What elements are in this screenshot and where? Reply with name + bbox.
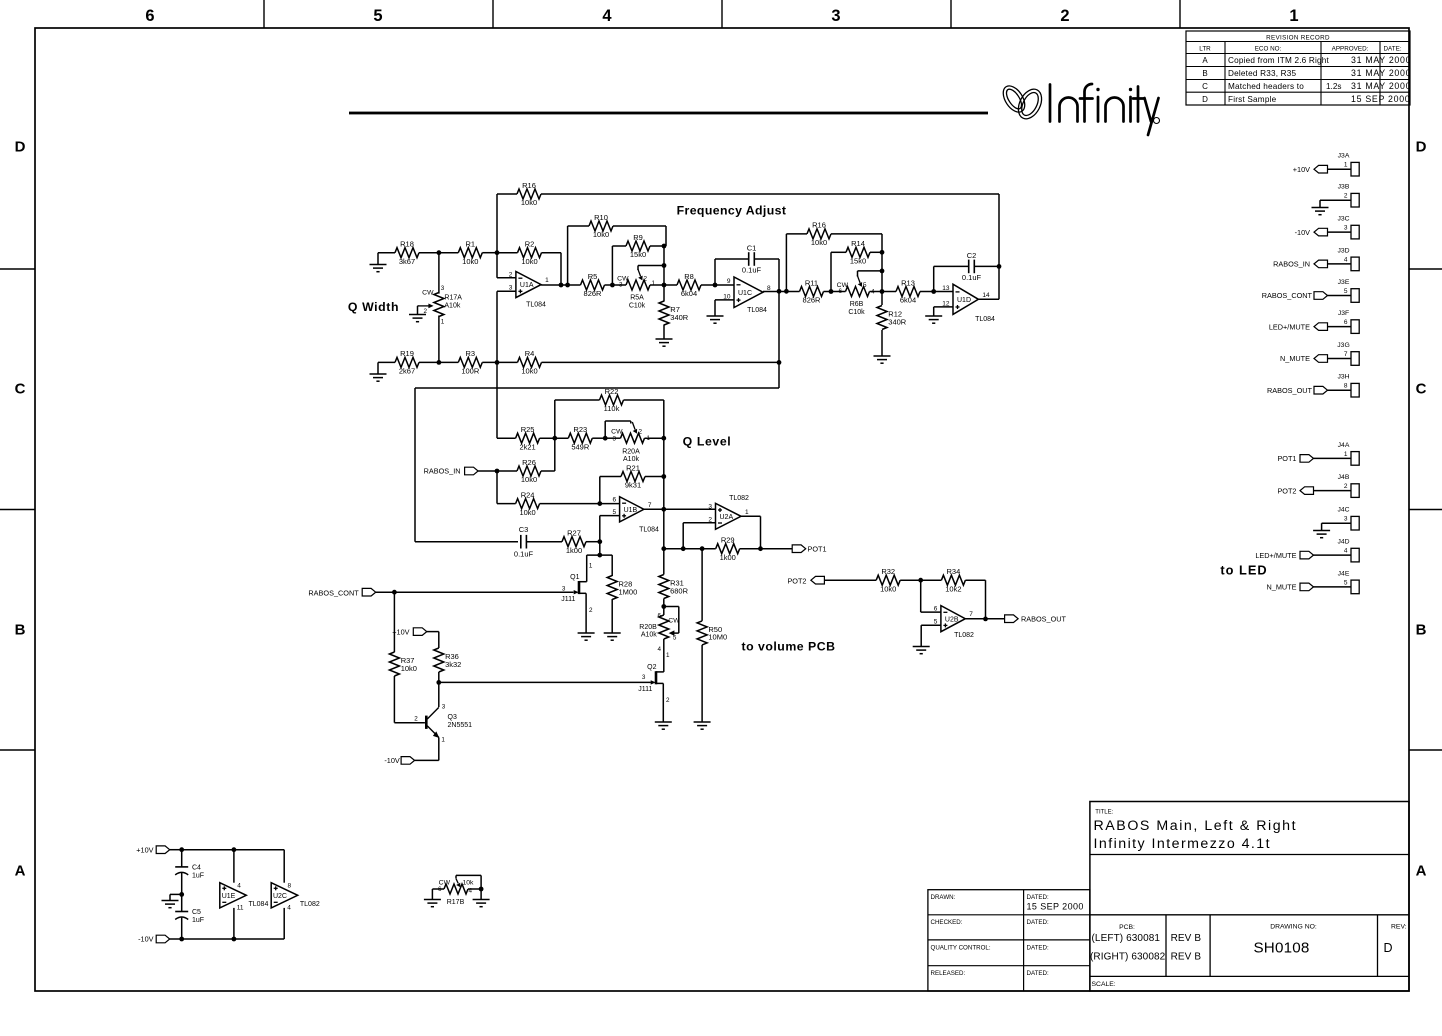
svg-text:4: 4 xyxy=(237,882,241,889)
potentiometer R17A xyxy=(419,253,444,363)
svg-text:J3F: J3F xyxy=(1338,310,1349,317)
svg-text:C: C xyxy=(1416,381,1427,398)
svg-text:3k67: 3k67 xyxy=(399,257,415,266)
svg-text:TL082: TL082 xyxy=(729,495,749,502)
zone number 5 xyxy=(373,7,382,25)
wire U1D output xyxy=(978,298,999,300)
svg-text:11: 11 xyxy=(237,904,244,911)
svg-text:10M0: 10M0 xyxy=(708,633,727,642)
node R14 left on row xyxy=(829,289,834,294)
svg-text:J3G: J3G xyxy=(1337,342,1349,349)
wire R21 row xyxy=(600,477,664,504)
node R9/R10 right junction xyxy=(662,244,667,249)
svg-text:POT2: POT2 xyxy=(1277,486,1296,495)
node R20A right junction xyxy=(661,436,666,441)
svg-text:10k0: 10k0 xyxy=(521,257,537,266)
wire U1A pin3 feed xyxy=(497,291,516,362)
svg-text:1: 1 xyxy=(441,737,445,744)
left zone tick D/C xyxy=(0,268,35,270)
node R31 row junction xyxy=(661,546,666,551)
svg-text:+10V: +10V xyxy=(1293,165,1310,174)
node RABOS_CONT junction xyxy=(392,590,397,595)
svg-text:100R: 100R xyxy=(461,367,480,376)
svg-text:J3E: J3E xyxy=(1338,279,1350,286)
connector POT1 xyxy=(792,544,826,553)
ground psu mid xyxy=(162,894,182,907)
node R7 top on output row xyxy=(662,283,667,288)
svg-text:R34: R34 xyxy=(947,567,961,576)
zone number 2 xyxy=(1060,7,1069,25)
wire psu top rail xyxy=(182,850,285,883)
svg-text:31 MAY 2000: 31 MAY 2000 xyxy=(1351,81,1411,91)
svg-text:6: 6 xyxy=(657,612,661,619)
svg-text:10k2: 10k2 xyxy=(945,584,961,593)
transistor Q1 J111 xyxy=(561,562,593,633)
node C2 tap xyxy=(931,289,936,294)
section title Q Width xyxy=(348,300,399,314)
svg-text:R11: R11 xyxy=(805,278,818,287)
ground under R50 xyxy=(694,722,711,729)
svg-text:R6B: R6B xyxy=(850,301,864,308)
wire U2B output row xyxy=(965,618,1004,620)
wire rail into R25 xyxy=(496,362,498,438)
connector RABOS_OUT xyxy=(1005,614,1067,623)
header J3B xyxy=(1338,184,1360,207)
svg-text:LTR: LTR xyxy=(1199,46,1211,53)
Infinity logo swirl xyxy=(999,82,1046,123)
section note to LED xyxy=(1220,563,1267,578)
svg-text:1: 1 xyxy=(545,277,549,284)
svg-text:C: C xyxy=(15,381,26,398)
svg-text:13: 13 xyxy=(942,285,950,292)
svg-text:J3B: J3B xyxy=(1338,184,1350,191)
header J4B xyxy=(1338,474,1360,497)
header J3A xyxy=(1338,153,1360,176)
svg-text:1: 1 xyxy=(589,562,593,569)
svg-text:4: 4 xyxy=(1344,548,1348,555)
ground at J4C xyxy=(1313,523,1351,538)
svg-text:5: 5 xyxy=(863,282,867,289)
wire R12 column xyxy=(881,234,883,356)
svg-text:LED+/MUTE: LED+/MUTE xyxy=(1255,551,1296,560)
svg-text:2: 2 xyxy=(1344,483,1348,490)
svg-text:POT1: POT1 xyxy=(808,544,827,553)
wire rail from R16 down to R1/R2 node xyxy=(496,194,498,253)
capacitor C2 xyxy=(934,194,999,299)
wire U2B pin5 to ground xyxy=(913,625,941,654)
wire R14 row xyxy=(831,252,882,291)
wire R26 row xyxy=(497,438,555,471)
node U2A output junction xyxy=(758,546,763,551)
resistor R10 xyxy=(589,213,613,239)
svg-text:CW: CW xyxy=(611,429,623,436)
svg-text:6: 6 xyxy=(934,606,938,613)
svg-text:ECO NO:: ECO NO: xyxy=(1255,46,1282,53)
revision record table xyxy=(1186,31,1411,105)
svg-text:R20A: R20A xyxy=(622,448,640,455)
svg-text:U2C: U2C xyxy=(273,893,287,900)
wire R36 junction row to Q2 gate xyxy=(439,672,651,682)
wire R22 row xyxy=(555,400,664,438)
svg-text:DATED:: DATED: xyxy=(1027,945,1050,952)
svg-text:4: 4 xyxy=(1344,256,1348,263)
svg-text:SCALE:: SCALE: xyxy=(1092,981,1116,988)
node C1 tap xyxy=(713,283,718,288)
potentiometer R17B xyxy=(438,875,481,905)
resistor R16 second xyxy=(807,221,831,247)
node C5 bottom xyxy=(179,937,184,942)
svg-text:C10k: C10k xyxy=(629,302,646,309)
svg-text:J4D: J4D xyxy=(1337,539,1349,546)
svg-text:D: D xyxy=(1202,95,1208,104)
svg-text:2: 2 xyxy=(589,607,593,614)
connector -10V psu xyxy=(138,935,182,944)
svg-text:C5: C5 xyxy=(192,909,201,916)
node wiper junction xyxy=(662,263,667,268)
wire R6B wiper to node xyxy=(858,271,883,277)
op-amp U1C xyxy=(723,277,771,314)
svg-text:1.2s: 1.2s xyxy=(1326,82,1341,91)
potentiometer R5A xyxy=(617,269,655,310)
svg-text:3: 3 xyxy=(442,703,446,710)
resistor R9 xyxy=(626,233,650,259)
zone tick 6/5 xyxy=(263,0,265,28)
node R12 top on row xyxy=(880,289,885,294)
svg-text:4: 4 xyxy=(469,887,473,894)
svg-text:A: A xyxy=(1202,56,1208,65)
right zone letter B xyxy=(1416,622,1427,639)
svg-text:R32: R32 xyxy=(881,567,895,576)
svg-text:7: 7 xyxy=(1344,351,1348,358)
resistor R1 xyxy=(458,240,482,266)
svg-text:2: 2 xyxy=(423,308,427,315)
wire U1A output row xyxy=(541,284,734,286)
svg-text:R13: R13 xyxy=(901,278,915,287)
svg-text:1: 1 xyxy=(441,319,445,326)
svg-text:C1: C1 xyxy=(747,244,757,253)
svg-text:B: B xyxy=(15,622,26,639)
ground R17B left xyxy=(424,889,444,907)
svg-text:1uF: 1uF xyxy=(192,873,204,880)
connector RABOS_OUT J3H xyxy=(1267,386,1351,395)
right zone tick B/A xyxy=(1409,749,1442,751)
svg-text:J111: J111 xyxy=(561,596,575,603)
connector RABOS_IN J3D xyxy=(1273,260,1351,269)
logo underline bar xyxy=(349,112,988,115)
potentiometer R20A xyxy=(605,421,650,463)
svg-text:U1E: U1E xyxy=(222,893,236,900)
wire RABOS_CONT row to Q1 gate xyxy=(394,591,573,593)
right zone letter C xyxy=(1416,381,1427,398)
svg-text:U2A: U2A xyxy=(720,514,734,521)
connector LED+/MUTE J3F xyxy=(1269,322,1351,331)
resistor R36 xyxy=(434,648,462,672)
wire R37 to Q3 base xyxy=(394,676,425,723)
svg-text:1: 1 xyxy=(1344,162,1348,169)
svg-text:REV B: REV B xyxy=(1171,933,1202,944)
svg-text:1: 1 xyxy=(1344,451,1348,458)
right zone letter D xyxy=(1416,139,1427,156)
svg-text:680R: 680R xyxy=(670,586,689,595)
svg-text:15k0: 15k0 xyxy=(850,257,866,266)
wire RABOS_CONT down to R37 xyxy=(393,592,395,652)
node R18/R1/R17A junction xyxy=(437,250,442,255)
svg-text:DATED:: DATED: xyxy=(1027,970,1050,977)
ground R17B right xyxy=(473,889,490,907)
zone number 1 xyxy=(1289,7,1298,25)
svg-text:RABOS_OUT: RABOS_OUT xyxy=(1021,614,1067,623)
wire R19/R3/R4 row xyxy=(378,361,779,363)
transistor Q3 2N5551 xyxy=(414,703,472,760)
wire R34 feedback drop xyxy=(985,580,987,619)
node R21 right junction xyxy=(661,474,666,479)
svg-text:R23: R23 xyxy=(573,425,587,434)
svg-text:POT1: POT1 xyxy=(1277,454,1296,463)
svg-text:4: 4 xyxy=(657,646,661,653)
svg-text:C3: C3 xyxy=(519,525,529,534)
right zone tick D/C xyxy=(1409,268,1442,270)
wire U1C pin10 to ground xyxy=(707,300,735,323)
svg-text:B: B xyxy=(1416,622,1427,639)
svg-text:R29: R29 xyxy=(721,536,735,545)
resistor R19 xyxy=(395,349,419,375)
svg-text:6: 6 xyxy=(1344,319,1348,326)
svg-text:8: 8 xyxy=(1344,383,1348,390)
svg-text:2k21: 2k21 xyxy=(519,442,535,451)
svg-text:Q2: Q2 xyxy=(647,664,656,671)
svg-text:2N5551: 2N5551 xyxy=(448,722,473,729)
svg-text:6: 6 xyxy=(438,886,442,893)
svg-text:4: 4 xyxy=(602,7,612,25)
wire feedback bracket to C3 xyxy=(415,291,779,541)
wire R36 junction down to Q3 collector xyxy=(438,682,440,707)
node C4 top xyxy=(179,847,184,852)
svg-text:Q Level: Q Level xyxy=(683,435,732,449)
wiper wire R17A to ground xyxy=(409,306,426,322)
svg-text:R25: R25 xyxy=(521,425,535,434)
ground under Q1 xyxy=(578,633,595,640)
wire U1A pin2 feed xyxy=(497,253,516,278)
ground under R28 xyxy=(604,633,621,640)
resistor R11 xyxy=(800,278,824,304)
svg-text:1: 1 xyxy=(652,280,656,287)
header J4C xyxy=(1337,507,1359,530)
resistor R25 xyxy=(516,425,540,451)
svg-text:J4E: J4E xyxy=(1338,570,1350,577)
node pin5 lower junction xyxy=(597,553,602,558)
svg-text:R26: R26 xyxy=(522,458,536,467)
svg-text:15 SEP 2000: 15 SEP 2000 xyxy=(1027,902,1084,912)
svg-text:RABOS_IN: RABOS_IN xyxy=(1273,260,1310,269)
svg-text:RABOS_IN: RABOS_IN xyxy=(424,467,461,476)
header J4D xyxy=(1337,539,1359,562)
svg-text:1: 1 xyxy=(745,509,749,516)
connector N_MUTE J4E xyxy=(1267,583,1352,592)
svg-text:2: 2 xyxy=(644,275,648,282)
node R9 left on output row xyxy=(610,283,615,288)
node R32/R34 junction xyxy=(918,578,923,583)
left zone letter C xyxy=(15,381,26,398)
svg-text:2: 2 xyxy=(1344,193,1348,200)
svg-text:2: 2 xyxy=(639,429,643,436)
node R23/R20A junction xyxy=(603,436,608,441)
connector +10V psu xyxy=(136,845,181,854)
svg-text:10k0: 10k0 xyxy=(880,584,896,593)
capacitor C4 xyxy=(175,850,204,895)
svg-text:826R: 826R xyxy=(584,289,603,298)
svg-text:R10: R10 xyxy=(594,213,608,222)
svg-text:DRAWING NO:: DRAWING NO: xyxy=(1270,923,1317,930)
right zone tick C/B xyxy=(1409,509,1442,511)
svg-text:R2: R2 xyxy=(525,240,535,249)
node R50 top junction xyxy=(700,546,705,551)
zone tick 4/3 xyxy=(721,0,723,28)
resistor R2 xyxy=(518,240,542,266)
svg-text:R16: R16 xyxy=(812,221,826,230)
op-amp U1E xyxy=(220,882,269,911)
svg-text:N_MUTE: N_MUTE xyxy=(1280,354,1310,363)
svg-text:10k0: 10k0 xyxy=(811,238,827,247)
svg-text:D: D xyxy=(15,139,26,156)
header J3D xyxy=(1337,247,1359,270)
wire R24 row xyxy=(497,503,620,505)
zone tick 2/1 xyxy=(1179,0,1181,28)
svg-text:CW: CW xyxy=(422,290,434,297)
svg-text:to volume PCB: to volume PCB xyxy=(742,640,836,654)
wire U2B pin6 feed xyxy=(921,580,941,612)
svg-text:549R: 549R xyxy=(571,442,590,451)
resistor R32 xyxy=(876,567,900,593)
svg-text:U1C: U1C xyxy=(738,290,752,297)
svg-text:TL084: TL084 xyxy=(639,527,659,534)
svg-text:C: C xyxy=(1202,82,1208,91)
svg-text:-10V: -10V xyxy=(384,756,400,765)
node C4/C5 mid junction xyxy=(179,892,184,897)
wire psu bottom rail xyxy=(182,908,285,939)
svg-text:J4B: J4B xyxy=(1338,474,1350,481)
svg-text:Q3: Q3 xyxy=(448,714,457,721)
section title Q Level xyxy=(683,435,732,449)
svg-text:Infinity Intermezzo 4.1t: Infinity Intermezzo 4.1t xyxy=(1094,836,1272,852)
resistor R27 xyxy=(562,529,586,555)
left zone tick C/B xyxy=(0,509,35,511)
svg-text:R8: R8 xyxy=(684,272,694,281)
resistor R50 xyxy=(697,621,727,645)
header J4A xyxy=(1338,442,1360,465)
resistor R5 xyxy=(581,272,605,298)
wire R5A wiper to node xyxy=(638,266,664,271)
resistor R4 xyxy=(518,349,542,375)
svg-text:R5A: R5A xyxy=(630,295,644,302)
svg-text:4: 4 xyxy=(871,289,875,296)
svg-text:J4A: J4A xyxy=(1338,442,1350,449)
svg-text:10k0: 10k0 xyxy=(521,198,537,207)
svg-text:31 MAY 2000: 31 MAY 2000 xyxy=(1351,55,1411,65)
svg-text:RABOS_OUT: RABOS_OUT xyxy=(1267,386,1313,395)
svg-text:Deleted R33, R35: Deleted R33, R35 xyxy=(1228,69,1297,78)
svg-text:31 MAY 2000: 31 MAY 2000 xyxy=(1351,68,1411,78)
svg-text:3: 3 xyxy=(831,7,840,25)
title block xyxy=(1090,802,1409,992)
node R16 second tap xyxy=(784,289,789,294)
svg-text:5: 5 xyxy=(1344,579,1348,586)
svg-text:POT2: POT2 xyxy=(787,576,806,585)
svg-text:1k00: 1k00 xyxy=(566,546,582,555)
svg-text:2: 2 xyxy=(509,272,513,279)
wire R25/R23 row xyxy=(497,437,664,439)
resistor R22 xyxy=(600,387,624,413)
svg-text:J4C: J4C xyxy=(1337,507,1349,514)
node U2B output junction xyxy=(983,617,988,622)
svg-text:A10k: A10k xyxy=(641,632,657,639)
node U2A pin2 junction xyxy=(681,546,686,551)
node C2/R16 junction xyxy=(997,264,1002,269)
resistor R31 xyxy=(659,575,689,599)
svg-text:R18: R18 xyxy=(400,240,414,249)
zone number 3 xyxy=(831,7,840,25)
svg-text:REV B: REV B xyxy=(1171,952,1202,963)
node R4 row end junction xyxy=(777,360,782,365)
svg-text:R3: R3 xyxy=(466,349,476,358)
resistor R21 xyxy=(621,463,645,489)
svg-text:C10k: C10k xyxy=(848,309,865,316)
svg-text:6: 6 xyxy=(612,497,616,504)
labels R17A xyxy=(422,285,462,325)
svg-text:110k: 110k xyxy=(604,404,620,413)
svg-text:R17A: R17A xyxy=(444,294,462,301)
svg-text:6: 6 xyxy=(838,288,842,295)
svg-text:R4: R4 xyxy=(525,349,535,358)
wire U1D pin12 to ground xyxy=(925,307,953,323)
svg-text:RABOS Main, Left & Right: RABOS Main, Left & Right xyxy=(1094,818,1298,834)
svg-text:3: 3 xyxy=(708,503,712,510)
op-amp U2C xyxy=(271,882,320,911)
svg-text:8: 8 xyxy=(288,882,292,889)
svg-text:REV:: REV: xyxy=(1391,923,1407,930)
wire U1B pin5 feed xyxy=(600,516,620,556)
connector RABOS_CONT xyxy=(308,588,394,597)
resistor R3 xyxy=(458,349,482,375)
wire POT2 row to R34 xyxy=(900,579,985,581)
svg-text:APPROVED:: APPROVED: xyxy=(1332,46,1369,53)
svg-text:DRAWN:: DRAWN: xyxy=(931,894,956,901)
svg-text:2: 2 xyxy=(1060,7,1069,25)
node U1B output junction xyxy=(661,507,666,512)
node R25/R23/R26 junction xyxy=(552,436,557,441)
svg-text:2k67: 2k67 xyxy=(399,367,415,376)
wire U1B output row xyxy=(644,508,716,510)
left zone letter D xyxy=(15,139,26,156)
connector LED+/MUTE J4D xyxy=(1255,551,1351,560)
svg-text:DATE:: DATE: xyxy=(1384,46,1402,53)
svg-text:7: 7 xyxy=(969,611,973,618)
svg-text:A10k: A10k xyxy=(623,456,639,463)
node R10 tap on output xyxy=(565,283,570,288)
svg-text:TL082: TL082 xyxy=(300,901,320,908)
potentiometer R6B xyxy=(837,275,875,316)
approval table xyxy=(928,890,1090,991)
svg-text:TL084: TL084 xyxy=(526,302,546,309)
svg-text:3: 3 xyxy=(441,285,445,292)
svg-text:C2: C2 xyxy=(967,251,977,260)
connector -10V mid xyxy=(384,756,438,765)
svg-text:1: 1 xyxy=(666,652,670,659)
resistor R26 xyxy=(517,458,541,484)
svg-text:D: D xyxy=(1383,941,1392,955)
svg-text:+10V: +10V xyxy=(392,627,409,636)
connector POT2 xyxy=(787,576,876,585)
resistor R13 xyxy=(896,278,920,304)
